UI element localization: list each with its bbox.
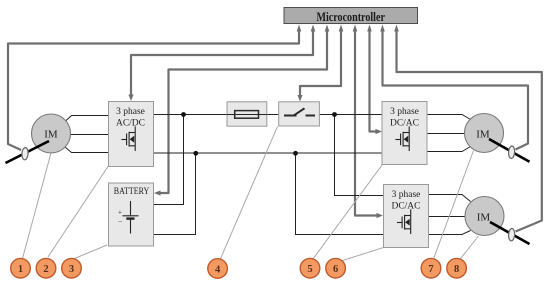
callout circle 5 [300, 258, 320, 278]
leader line 5 to DC/AC inverter 1 [313, 165, 382, 259]
transistor symbol inside AC/DC converter [121, 126, 135, 151]
arrowhead down into switch top [297, 95, 302, 102]
wire phase B lower right motor [429, 216, 466, 218]
callout circle 7 [421, 258, 441, 278]
callout circle 6 [326, 258, 346, 278]
leader line 4 to switch [221, 127, 278, 259]
wire W5 microcontroller to DC/AC inverter 2 [355, 30, 377, 216]
wire W7 speed sensor upper right wheel to microcontroller [383, 30, 529, 150]
wire phase B upper right motor [427, 133, 465, 135]
arrowhead right into DC/AC inverter 1 [376, 129, 383, 134]
arrowhead up into microcontroller pin 2 [311, 25, 316, 32]
wire W2 microcontroller to AC/DC converter [131, 30, 313, 96]
callout circle 8 [447, 258, 467, 278]
leader line 2 to AC/DC converter [48, 167, 108, 258]
junction node on negative bus at battery branch [193, 151, 198, 156]
wire W4 microcontroller to switch [300, 30, 341, 96]
motor M1 left induction machine [32, 114, 71, 153]
wire W6 microcontroller to DC/AC inverter 1 [370, 30, 377, 132]
svg-text:IM: IM [44, 129, 58, 141]
shaft of upper right motor [489, 139, 530, 162]
wire phase B left motor [71, 134, 109, 136]
arrowhead up into microcontroller pin 7 [380, 25, 385, 32]
junction node on negative bus at inverter 2 branch [293, 151, 298, 156]
battery cell symbol [118, 201, 139, 234]
junction node on positive bus at inverter 2 branch [332, 112, 337, 117]
svg-text:BATTERY: BATTERY [114, 187, 150, 197]
svg-text:Microcontroller: Microcontroller [316, 9, 385, 24]
leader line 7 to upper right induction machine [434, 151, 474, 260]
leader line 3 to battery [75, 245, 108, 259]
arrowhead up into microcontroller pin 8 [394, 25, 399, 32]
svg-text:3 phase: 3 phase [392, 190, 421, 200]
wire inverter 2 negative branch [296, 153, 384, 235]
svg-text:3 phase: 3 phase [390, 107, 419, 117]
inverter U4 3 phase DC/AC lower [384, 185, 429, 248]
svg-text:IM: IM [477, 212, 491, 224]
wire battery positive branch [154, 115, 184, 205]
svg-text:2: 2 [43, 264, 48, 275]
svg-text:AC/DC: AC/DC [116, 119, 145, 129]
wheel coupling 8 lower right oval [508, 228, 515, 241]
wire phase A left motor [65, 116, 109, 122]
svg-text:3 phase: 3 phase [116, 107, 145, 117]
svg-text:DC/AC: DC/AC [391, 202, 420, 212]
wheel coupling 1 left oval [21, 147, 28, 160]
shaft of lower right motor [490, 222, 530, 244]
switch S1 box [279, 102, 320, 126]
svg-text:+: + [118, 208, 123, 217]
motor M2 upper right induction machine [465, 114, 504, 153]
junction node on positive bus at battery branch [181, 112, 186, 117]
wire W1 speed sensor left wheel to microcontroller [8, 30, 299, 150]
leader line 1 to left induction machine [23, 151, 52, 259]
svg-text:DC/AC: DC/AC [390, 119, 419, 129]
inverter U3 3 phase DC/AC upper [382, 102, 427, 165]
wire phase A upper right motor [427, 115, 471, 120]
arrowhead down into AC/DC converter top [128, 95, 133, 102]
svg-text:4: 4 [215, 264, 221, 275]
arrowhead up into microcontroller pin 5 [353, 25, 358, 32]
wheel coupling 7 upper right oval [508, 146, 515, 159]
wire battery negative branch [154, 153, 196, 235]
wire W8 speed sensor lower right wheel to microcontroller [397, 30, 542, 232]
battery B1 box [109, 183, 154, 246]
wire DC bus negative [154, 152, 383, 154]
callout circle 2 [36, 258, 56, 278]
transistor symbol inside upper DC/AC inverter [395, 126, 409, 151]
microcontroller U1 [284, 8, 418, 25]
arrowhead up into microcontroller pin 4 [339, 25, 344, 32]
fuse F1 box [227, 102, 267, 126]
svg-text:1: 1 [18, 264, 23, 275]
svg-text:7: 7 [428, 264, 433, 275]
arrowhead right into DC/AC inverter 2 [377, 213, 384, 218]
callout circle 1 [11, 258, 31, 278]
shaft of left motor [6, 141, 50, 163]
converter U2 3 phase AC/DC [109, 102, 154, 167]
arrowhead up into microcontroller pin 6 [367, 25, 372, 32]
wire inverter 2 positive branch [335, 115, 384, 196]
svg-text:6: 6 [333, 264, 338, 275]
wire phase A lower right motor [429, 195, 471, 202]
leader line 8 to lower right induction machine [459, 236, 479, 261]
transistor symbol inside lower DC/AC inverter [397, 209, 411, 234]
arrowhead left into battery [154, 190, 161, 195]
wire DC bus positive [154, 114, 383, 116]
arrowhead up into microcontroller pin 1 [297, 25, 302, 32]
wire phase C lower right motor [429, 231, 471, 235]
wire phase C upper right motor [427, 147, 471, 152]
motor M3 lower right induction machine [465, 197, 504, 236]
callout circle 4 [208, 259, 228, 279]
wire phase C left motor [65, 147, 109, 153]
svg-text:−: − [118, 217, 123, 226]
leader line 6 to DC/AC inverter 2 [340, 248, 384, 262]
arrowhead up into microcontroller pin 3 [325, 25, 330, 32]
svg-text:8: 8 [454, 264, 459, 275]
callout circle 3 [62, 258, 82, 278]
wire W3 microcontroller to battery [159, 30, 327, 193]
svg-text:3: 3 [69, 264, 74, 275]
svg-text:IM: IM [476, 129, 490, 141]
svg-text:5: 5 [307, 264, 312, 275]
